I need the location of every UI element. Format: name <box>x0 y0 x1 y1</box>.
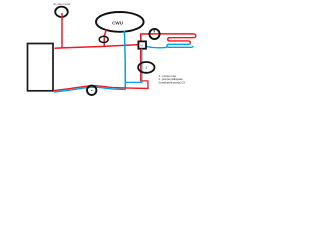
svg-text:CWU: CWU <box>112 20 124 25</box>
boiler rectangle <box>28 44 54 91</box>
svg-text:3: 3 <box>145 66 147 70</box>
floor heating coil red <box>168 34 196 44</box>
red riser from supply circle <box>61 13 63 48</box>
floor heating coil blue <box>167 44 193 48</box>
svg-text:do sieci wod.: do sieci wod. <box>53 2 71 6</box>
main red supply line <box>55 45 139 49</box>
bottom red return <box>54 86 149 91</box>
red elbow from valve box up to pump 2 <box>141 34 150 42</box>
bottom pump mark <box>91 90 93 92</box>
valve box M <box>138 41 146 48</box>
bottom blue return <box>54 87 126 92</box>
red riser CWU <box>104 30 106 47</box>
pump 2 mark <box>153 30 155 33</box>
CWU tank ellipse <box>96 12 144 32</box>
pump circle 2 <box>149 29 159 39</box>
red line through pump 2 to coil <box>150 33 194 35</box>
bottom pump circle <box>87 86 96 95</box>
blue return from coil to valve box <box>145 46 167 48</box>
blue drop from valve box <box>125 49 141 83</box>
node label ellipse 3 <box>138 62 154 73</box>
cwu pump circle 1 <box>99 36 108 42</box>
water supply circle <box>55 7 68 17</box>
blue drop from CWU <box>123 31 126 90</box>
svg-text:3 przekaźnik pompy CO: 3 przekaźnik pompy CO <box>159 81 186 84</box>
red drop from valve box <box>141 49 148 89</box>
